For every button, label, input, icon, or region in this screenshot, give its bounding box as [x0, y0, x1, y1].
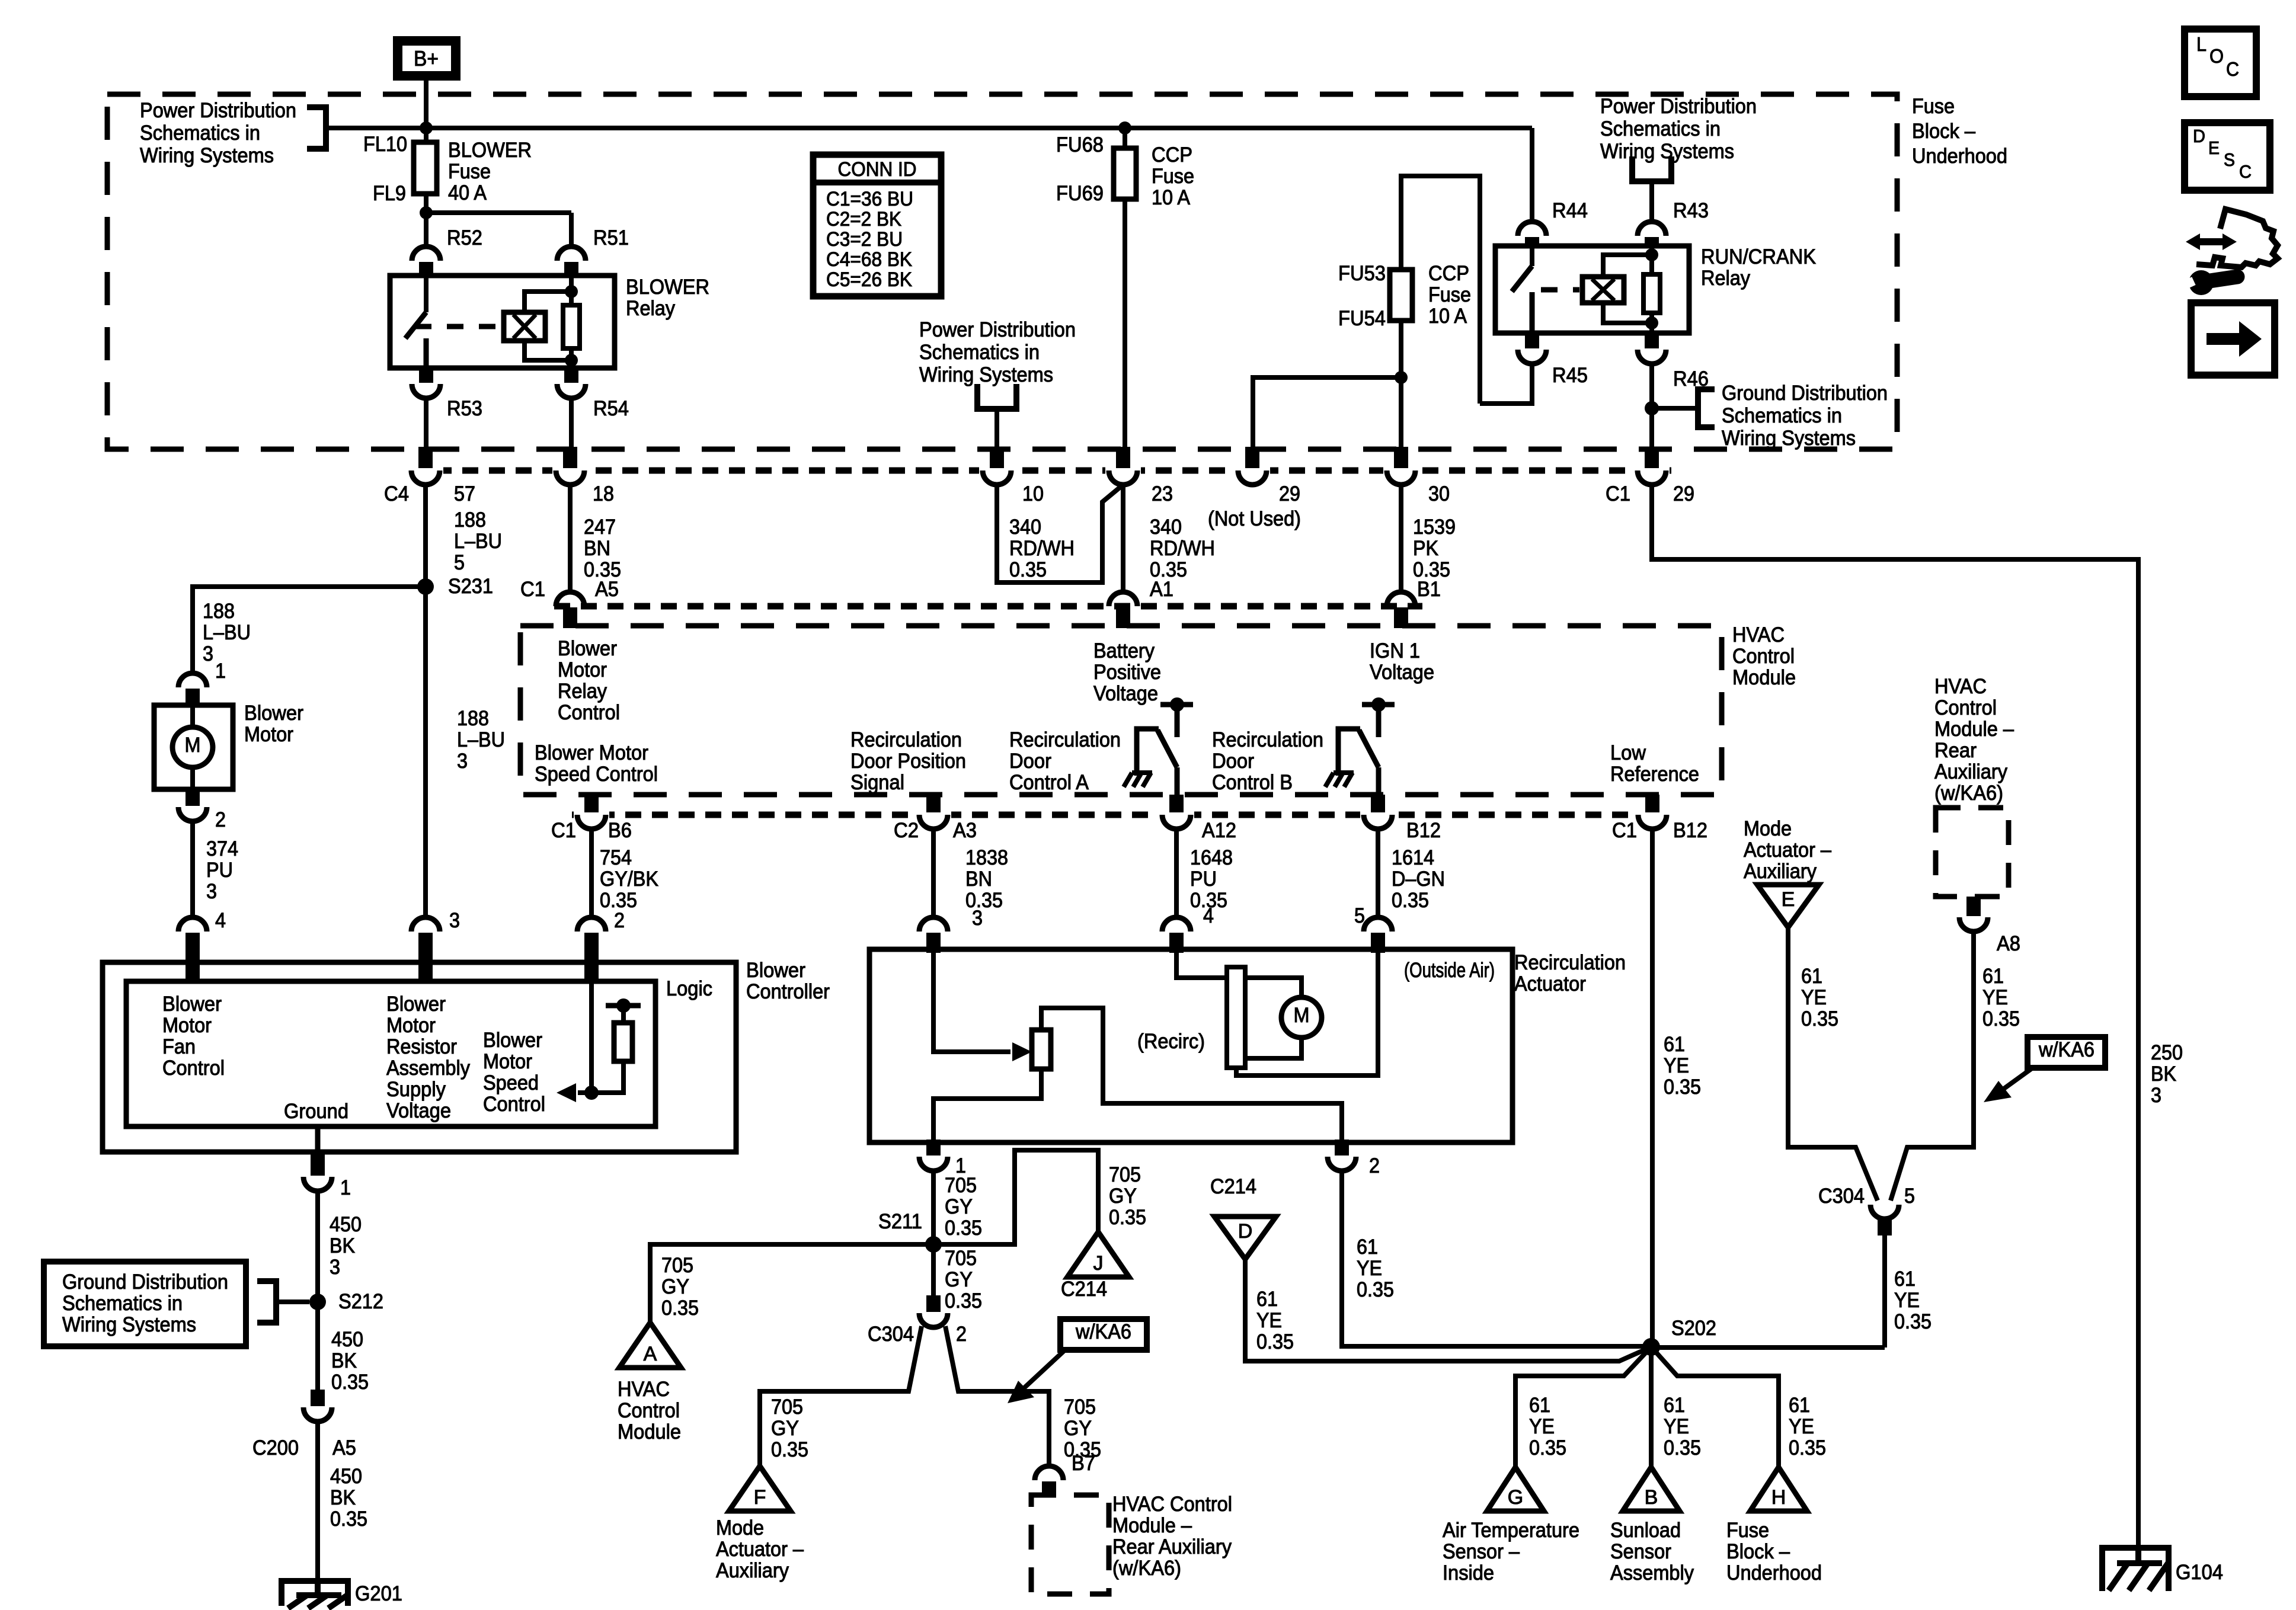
pot bottom to pin 1	[933, 1069, 1041, 1140]
svg-text:C1: C1	[1612, 819, 1637, 842]
wire S211 to J triangle	[933, 1150, 1098, 1244]
svg-text:C: C	[2226, 58, 2239, 80]
connector C1 A5	[552, 600, 588, 612]
svg-text:FU68: FU68	[1056, 133, 1104, 156]
svg-text:C214: C214	[1210, 1175, 1256, 1198]
connector blower motor pin 2	[178, 807, 207, 821]
ground distribution reference box	[44, 1262, 246, 1346]
svg-text:B6: B6	[608, 819, 632, 842]
svg-text:F: F	[754, 1486, 766, 1509]
svg-text:B7: B7	[1072, 1452, 1095, 1475]
svg-text:57: 57	[454, 482, 475, 505]
connector C1 B6	[574, 809, 609, 821]
svg-text:Blower MotorSpeed Control: Blower MotorSpeed Control	[535, 741, 658, 786]
dashed box hvac rear aux (bottom)	[1031, 1495, 1109, 1594]
svg-text:29: 29	[1279, 482, 1300, 505]
actuator door bar	[1227, 967, 1245, 1068]
svg-text:4: 4	[215, 909, 226, 932]
S202 branch to G	[1515, 1347, 1651, 1467]
svg-text:C304: C304	[868, 1323, 914, 1346]
wire pin 30 to B1	[1399, 485, 1403, 592]
wire to ground distribution bracket	[1652, 406, 1698, 411]
wire 18 to A5	[568, 485, 573, 592]
node R46 branch	[1645, 401, 1659, 415]
node fuse output split	[420, 206, 433, 219]
recirc pin 2 wire to S202	[1342, 1171, 1651, 1346]
wire S231 to blower motor pin 1	[193, 587, 426, 673]
run/crank relay switch	[1530, 246, 1534, 266]
wire B12 to recirc actuator pin 5	[1376, 829, 1380, 916]
module bottom connector row (dotted)	[572, 812, 1669, 818]
connector blower controller pin 1	[303, 1177, 332, 1191]
blower motor box	[154, 705, 233, 789]
off-page triangle G	[1487, 1467, 1544, 1511]
svg-text:FL9: FL9	[373, 182, 406, 205]
actuator motor M	[1281, 997, 1322, 1038]
pot top loop to pin 2	[1041, 1008, 1342, 1140]
svg-text:18: 18	[593, 482, 614, 505]
splice S231	[417, 578, 434, 595]
w/KA6 flag box (middle)	[1060, 1319, 1147, 1350]
connector A12	[1159, 809, 1194, 821]
wire A3 to recirc actuator pin 3	[931, 829, 936, 916]
svg-text:R43: R43	[1673, 199, 1709, 222]
wire FU54 to pin 30	[1399, 321, 1403, 449]
svg-text:S202: S202	[1671, 1317, 1716, 1340]
connector recirc actuator pin 1	[926, 1140, 941, 1156]
connector B7	[1035, 1466, 1063, 1480]
connector B12	[1360, 809, 1396, 821]
svg-text:G104: G104	[2176, 1561, 2223, 1584]
svg-text:A3: A3	[953, 819, 977, 842]
svg-text:Block –: Block –	[1912, 120, 1975, 143]
svg-text:FU53: FU53	[1338, 262, 1386, 285]
svg-text:H: H	[1771, 1486, 1786, 1509]
svg-text:2: 2	[614, 909, 625, 932]
svg-text:R51: R51	[593, 226, 629, 249]
wire R53 to pin 57	[424, 398, 428, 449]
connector R52	[412, 247, 440, 261]
svg-text:A: A	[644, 1343, 657, 1365]
wire bracket to pin 10	[994, 409, 999, 449]
svg-text:B1: B1	[1417, 578, 1441, 601]
node FU54 split	[1395, 371, 1408, 384]
svg-text:D: D	[2193, 126, 2205, 146]
off-page bracket at S212	[257, 1281, 276, 1323]
wire to F	[760, 1326, 922, 1466]
off-page bracket above pin 10	[977, 384, 1016, 409]
fuse block output connector row (dotted)	[409, 468, 1671, 474]
wire R45 to CCP fuse hook	[1480, 364, 1532, 404]
switch B blade	[1359, 730, 1379, 767]
ground G104	[2102, 1548, 2169, 1591]
w/KA6 arrow (middle)	[1022, 1351, 1064, 1390]
controller internal resistor	[591, 1061, 623, 1093]
svg-text:B+: B+	[414, 46, 439, 71]
wire 450 BK to C200	[315, 1191, 320, 1406]
svg-text:R45: R45	[1552, 364, 1588, 387]
node CCP fuse tap	[1118, 121, 1131, 135]
svg-text:C1: C1	[551, 819, 576, 842]
svg-text:2: 2	[215, 808, 226, 831]
svg-text:G201: G201	[355, 1582, 402, 1605]
svg-text:2: 2	[956, 1323, 967, 1346]
svg-text:S212: S212	[338, 1290, 383, 1313]
svg-text:E: E	[2208, 137, 2220, 158]
B+ battery feed box	[393, 36, 461, 81]
module top connector row (dotted)	[554, 603, 1422, 610]
fuse FL10/FL9 BLOWER Fuse 40 A	[424, 128, 428, 142]
wire motor pin2 to controller pin4	[190, 821, 195, 916]
RUN/CRANK relay box	[1495, 246, 1689, 333]
svg-text:M: M	[1294, 1004, 1310, 1027]
connector pin 18	[552, 465, 588, 476]
legend: LOC box	[2185, 29, 2256, 97]
off-page bracket above R43	[1632, 156, 1671, 181]
wire C304-5 to S202	[1882, 1235, 1887, 1347]
connector recirc actuator pin 5	[1364, 917, 1392, 932]
svg-text:J: J	[1093, 1252, 1104, 1275]
connector pin 23	[1105, 465, 1141, 476]
fuse FU68/FU69 CCP Fuse 10 A	[1123, 128, 1127, 148]
connector blower controller pin 2	[577, 917, 606, 932]
wire pin1 to S211	[931, 1171, 936, 1244]
connector recirc actuator pin 3	[919, 917, 948, 932]
wire B6 to controller pin 2	[589, 829, 594, 916]
svg-text:FU69: FU69	[1056, 182, 1104, 205]
splice S212	[309, 1294, 326, 1310]
svg-text:30: 30	[1428, 482, 1450, 505]
connector R54	[564, 368, 578, 383]
HVAC control module dashed box	[520, 626, 1722, 795]
connector C304 pin 2	[926, 1295, 941, 1312]
svg-text:A5: A5	[332, 1436, 356, 1459]
svg-text:5: 5	[1904, 1185, 1915, 1208]
connector C4 pin 57	[408, 465, 443, 476]
off-page triangle H	[1750, 1467, 1807, 1511]
svg-text:10: 10	[1022, 482, 1044, 505]
wire R54 to pin 18	[569, 398, 574, 449]
blower relay resistor	[565, 285, 578, 298]
svg-text:A1: A1	[1150, 578, 1173, 601]
svg-text:4: 4	[1203, 904, 1214, 927]
wire B+ down to bus	[424, 81, 428, 128]
bar to motor loop	[1245, 978, 1302, 997]
svg-text:R44: R44	[1552, 199, 1588, 222]
actuator position pot	[1032, 1030, 1051, 1069]
svg-text:(Outside Air): (Outside Air)	[1404, 959, 1495, 982]
svg-text:E: E	[1782, 888, 1795, 911]
blower relay switch	[424, 276, 428, 312]
connector C1 pin 29	[1634, 465, 1670, 476]
connector R46	[1645, 333, 1659, 348]
svg-text:FU54: FU54	[1338, 307, 1386, 330]
svg-text:1: 1	[340, 1176, 351, 1199]
svg-text:M: M	[185, 734, 201, 757]
svg-text:R53: R53	[447, 397, 482, 420]
w/KA6 arrow (right)	[2003, 1069, 2031, 1089]
wire 188 S231 down to controller pin 3	[423, 587, 428, 916]
switch A blade	[1157, 730, 1177, 767]
svg-text:CCPFuse10 A: CCPFuse10 A	[1152, 143, 1194, 209]
connector B1	[1383, 600, 1419, 612]
wire A12 to recirc actuator pin 4	[1174, 829, 1179, 916]
connector pin 30	[1383, 465, 1419, 476]
IGN rail + door control B switch	[1362, 702, 1395, 708]
wire A8 to C304-5	[1891, 932, 1974, 1201]
svg-text:w/KA6: w/KA6	[2038, 1038, 2094, 1061]
switch A bracket	[1137, 729, 1159, 776]
controller internal: speed control input	[589, 984, 594, 1093]
blower controller logic box	[126, 981, 655, 1126]
ground (switch B)	[1325, 773, 1354, 787]
legend: diagnostic icon	[2183, 209, 2278, 295]
connector A8	[1966, 897, 1981, 916]
svg-text:Fuse: Fuse	[1912, 95, 1955, 118]
svg-text:C304: C304	[1818, 1185, 1865, 1208]
svg-text:3: 3	[449, 909, 460, 932]
svg-text:C4: C4	[384, 482, 409, 505]
legend: forward arrow box	[2191, 303, 2275, 375]
svg-text:S211: S211	[878, 1210, 922, 1233]
connector C304 pin 5	[1870, 1205, 1899, 1219]
connector blower controller pin 4	[178, 917, 207, 932]
svg-text:C2: C2	[894, 819, 919, 842]
svg-text:L: L	[2196, 33, 2207, 55]
battery positive rail + door control A switch	[1160, 702, 1193, 708]
wire hook fuse top to R45	[1401, 176, 1480, 404]
off-page triangle B	[1623, 1467, 1680, 1511]
svg-text:w/KA6: w/KA6	[1075, 1320, 1131, 1343]
connector R43	[1638, 222, 1666, 236]
svg-text:A12: A12	[1202, 819, 1236, 842]
wire to pin 29	[1253, 377, 1401, 449]
svg-text:Ground: Ground	[284, 1100, 348, 1123]
connector pin 10	[979, 465, 1015, 476]
CONN ID table	[813, 155, 941, 296]
connector blower controller pin 3	[411, 917, 440, 932]
BLOWER relay box	[390, 276, 615, 368]
svg-text:O: O	[2209, 45, 2224, 67]
ground G201	[282, 1581, 348, 1608]
run/crank relay resistor	[1645, 248, 1658, 261]
splice S211	[925, 1236, 942, 1253]
wire FU69 down to pin 23	[1123, 199, 1127, 449]
svg-text:S: S	[2224, 149, 2235, 170]
svg-text:B: B	[1645, 1486, 1658, 1509]
svg-text:2: 2	[1369, 1154, 1380, 1177]
bar bottom to B12 wire	[1236, 953, 1378, 1076]
controller ground wire to pin 1	[315, 1126, 321, 1152]
svg-text:BlowerMotorSpeedControl: BlowerMotorSpeedControl	[483, 1029, 545, 1116]
off-page triangle J	[1067, 1232, 1129, 1277]
svg-text:C: C	[2239, 161, 2252, 182]
svg-text:(Not Used): (Not Used)	[1208, 507, 1301, 530]
run/crank relay coil	[1603, 255, 1652, 277]
svg-text:BatteryPositiveVoltage: BatteryPositiveVoltage	[1093, 639, 1161, 705]
connector R51	[557, 247, 586, 261]
connector recirc actuator pin 4	[1162, 917, 1191, 932]
wire bracket to R43	[1649, 181, 1654, 222]
svg-text:3: 3	[972, 907, 983, 930]
svg-text:A8: A8	[1997, 932, 2020, 955]
wire pin4 to bar	[1176, 953, 1227, 978]
recirculation actuator box	[869, 949, 1512, 1142]
svg-text:CCPFuse10 A: CCPFuse10 A	[1428, 262, 1471, 328]
blower motor M	[190, 705, 195, 727]
svg-text:Logic: Logic	[666, 977, 712, 1000]
wire to G201	[315, 1422, 320, 1581]
wire R46 down to pin C1-29	[1649, 364, 1654, 449]
connector C1 B12 low reference	[1635, 809, 1670, 821]
svg-text:C1: C1	[520, 578, 545, 601]
wire to R51	[426, 210, 571, 215]
arrow to speed control text	[578, 1090, 591, 1095]
wire 57 to S231	[423, 485, 428, 592]
blower controller outer box	[103, 962, 736, 1152]
svg-text:C200: C200	[252, 1436, 299, 1459]
wires pin10/pin23 join to A1	[997, 485, 1123, 582]
svg-text:B12: B12	[1406, 819, 1441, 842]
svg-text:G: G	[1508, 1486, 1523, 1509]
connector R53	[419, 368, 433, 383]
svg-text:A5: A5	[595, 578, 619, 601]
svg-text:R52: R52	[447, 226, 482, 249]
svg-text:CONN ID: CONN ID	[838, 158, 917, 181]
wire S211 down to C304 pin 2	[931, 1244, 936, 1295]
wire C1-29 to G104 (250 BK)	[1652, 485, 2138, 1548]
svg-text:D: D	[1238, 1220, 1253, 1243]
connector C200 A5	[311, 1390, 325, 1406]
S202 branch to H	[1651, 1347, 1779, 1467]
D triangle and wire to S202	[1214, 1217, 1276, 1259]
svg-text:C214: C214	[1061, 1278, 1107, 1301]
legend: DESC box	[2185, 123, 2270, 190]
S202 branch to B	[1649, 1347, 1654, 1467]
off-page triangle A	[619, 1323, 681, 1368]
svg-text:(Recirc): (Recirc)	[1137, 1030, 1205, 1053]
wire bus to R44	[1530, 128, 1534, 222]
actuator: A3 wiper arrow into pot	[933, 953, 1011, 1052]
svg-text:S231: S231	[448, 575, 493, 598]
svg-text:B12: B12	[1673, 819, 1707, 842]
off-page triangle F	[729, 1466, 791, 1511]
svg-text:1: 1	[215, 660, 226, 683]
ground (switch A)	[1124, 773, 1152, 787]
wire S211 to A triangle	[650, 1244, 933, 1323]
switch B bracket	[1338, 729, 1360, 776]
off-page bracket Ground Distribution (right)	[1698, 389, 1715, 427]
fuse block underhood dashed border	[107, 94, 1897, 449]
w/KA6 flag box (right)	[2028, 1037, 2105, 1068]
wire to B7	[945, 1326, 1049, 1466]
wire to R52	[424, 213, 428, 247]
svg-text:23: 23	[1152, 482, 1173, 505]
splice S202	[1642, 1338, 1660, 1356]
connector pin 29 (not used)	[1235, 465, 1270, 476]
svg-text:FL10: FL10	[363, 133, 407, 156]
svg-text:C1=36 BUC2=2 BKC3=2 BUC4=68 BK: C1=36 BUC2=2 BKC3=2 BUC4=68 BKC5=26 BK	[826, 188, 913, 291]
connector C2 A3	[916, 809, 951, 821]
off-page bracket Power Distribution (left)	[307, 107, 326, 149]
connector R45	[1525, 333, 1539, 348]
svg-text:R54: R54	[593, 397, 629, 420]
svg-text:29: 29	[1673, 482, 1694, 505]
connector blower motor pin 1	[178, 673, 207, 687]
blower relay coil	[525, 292, 571, 312]
connector recirc actuator pin 2	[1335, 1140, 1349, 1156]
connector R44	[1518, 222, 1546, 236]
low reference B12 wire to S202	[1650, 829, 1655, 1347]
wire B+ bus horizontal	[326, 126, 1532, 130]
node B+ junction	[420, 121, 433, 135]
svg-text:Underhood: Underhood	[1912, 145, 2007, 168]
connector A1	[1105, 600, 1141, 612]
svg-text:C1: C1	[1606, 482, 1630, 505]
wire E to C304-5	[1788, 927, 1878, 1201]
